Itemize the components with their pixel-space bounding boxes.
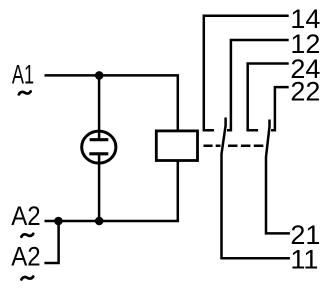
wire contact 2 common to terminal 21 xyxy=(266,157,290,233)
svg-text:A2: A2 xyxy=(11,201,40,231)
lamp upper electrode xyxy=(90,138,109,141)
wire contact 1 common to terminal 11 xyxy=(222,154,290,258)
contact arm 21-22-24 xyxy=(266,120,270,158)
wire A1 to coil top xyxy=(45,75,178,130)
glow lamp body xyxy=(82,131,116,163)
svg-text:21: 21 xyxy=(290,220,320,250)
svg-text:22: 22 xyxy=(290,77,320,107)
node junction dot lamp branch on A2 wire xyxy=(95,217,104,226)
AC symbol under second A2 xyxy=(21,277,33,280)
contact arm 11-12-14 xyxy=(222,118,226,155)
wire terminal 14 with fixed contact seat xyxy=(204,16,289,130)
node junction dot second A2 branch xyxy=(54,217,63,226)
wire terminal 22 with fixed contact seat xyxy=(271,87,289,130)
wire A2 line to coil bottom xyxy=(45,161,178,222)
wire lamp lower electrode to A2 line xyxy=(98,154,101,221)
AC symbol under A1 xyxy=(19,91,31,94)
lamp lower electrode xyxy=(89,152,108,155)
wire terminal 24 with fixed contact seat xyxy=(248,64,289,131)
wire junction to lamp upper electrode xyxy=(98,75,101,139)
svg-text:A1: A1 xyxy=(12,59,34,89)
node junction dot on A1 wire xyxy=(95,71,104,80)
svg-text:A2: A2 xyxy=(11,242,40,272)
AC symbol under A2 xyxy=(21,234,33,237)
relay coil xyxy=(156,131,197,161)
mechanical link dashed line xyxy=(204,145,221,148)
wire second A2 branch xyxy=(44,221,58,263)
wire terminal 12 with fixed contact seat xyxy=(227,40,289,130)
